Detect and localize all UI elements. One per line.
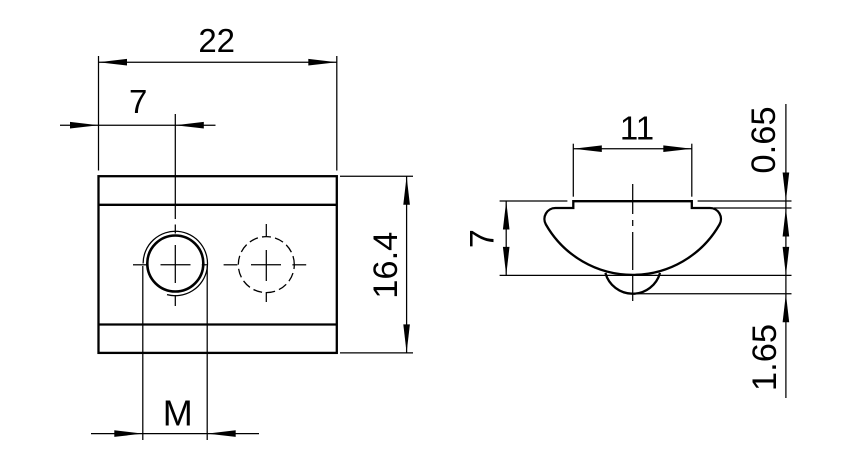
step level extension line right [714, 207, 792, 209]
right dimension column line [785, 104, 787, 398]
arrow 1.65 bottom [783, 294, 790, 323]
ball bottom extension line [630, 293, 792, 295]
arrow 16.4 top [403, 176, 410, 205]
dimension M line [91, 433, 259, 435]
arrow 22 left [99, 59, 128, 66]
spring ball bump arc [605, 273, 660, 294]
svg-text:0.65: 0.65 [745, 106, 783, 173]
thread outer arc [143, 231, 207, 295]
dimension 22 line [99, 61, 337, 63]
dimension M extension lines (thread tangents) [142, 266, 144, 440]
dimension 7 line (left view) [60, 124, 216, 126]
arrow 7 side top [503, 201, 510, 230]
dimension 11 extension lines [572, 144, 574, 197]
arrow M left [114, 430, 143, 437]
arrow 1.65 top [783, 247, 790, 276]
top flange edge line [99, 204, 337, 206]
svg-text:1.65: 1.65 [746, 324, 784, 391]
arrow 16.4 bottom [403, 324, 410, 353]
top surface extension line right [698, 200, 792, 202]
svg-text:16.4: 16.4 [367, 232, 405, 299]
threaded hole inner circle [147, 236, 203, 292]
svg-text:7: 7 [129, 83, 147, 120]
vertical center line of threaded hole [174, 114, 176, 306]
dimension 16.4 line [406, 176, 408, 353]
arrow 22 right [308, 59, 337, 66]
arrow 11 right [663, 145, 692, 152]
arrow 0.65 bottom [783, 208, 790, 237]
svg-text:22: 22 [198, 22, 235, 59]
body bottom extension line [500, 274, 792, 276]
vertical center line (side view) [632, 184, 634, 301]
arrow 7 side bottom [503, 247, 510, 276]
vertical center line of hidden hole [265, 224, 267, 302]
nut profile outline [544, 201, 721, 275]
arrow 7 right [175, 122, 204, 129]
hidden hole dashed circle [238, 237, 294, 293]
dimension 11 line [573, 148, 692, 150]
arrow M right [207, 430, 236, 437]
top surface extension line left [500, 200, 568, 202]
horizontal center line through both holes [133, 264, 306, 266]
dimension 22 extension lines [98, 56, 100, 171]
arrow 11 left [573, 145, 602, 152]
dimension 7 line (side view) [505, 201, 507, 275]
arrow 7 left [70, 122, 99, 129]
arrow 0.65 top [783, 173, 790, 202]
svg-text:M: M [163, 393, 193, 434]
nut body outline rectangle [99, 176, 337, 353]
bottom flange edge line [99, 323, 337, 325]
svg-text:7: 7 [464, 229, 502, 248]
dimension 16.4 extension lines [340, 175, 413, 177]
svg-text:11: 11 [620, 110, 654, 147]
